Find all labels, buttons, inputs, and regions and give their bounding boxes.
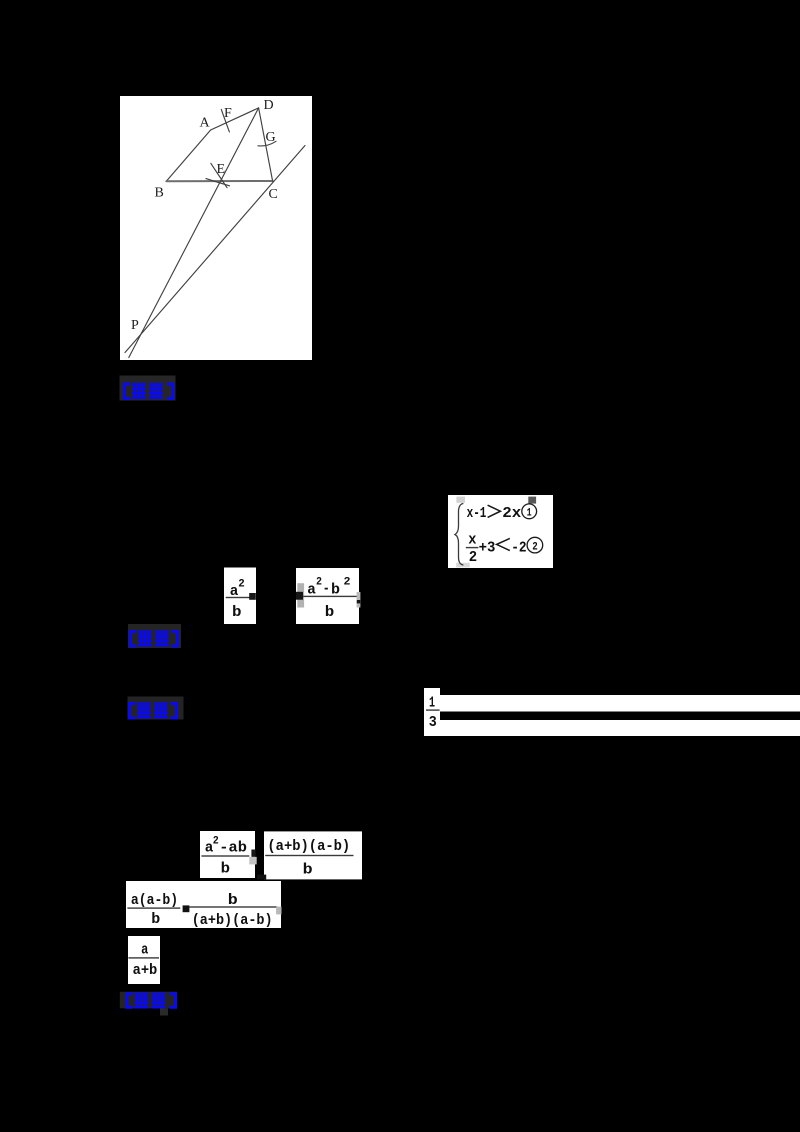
svg-text:a: a bbox=[141, 942, 148, 959]
blue section label 3 bbox=[128, 697, 184, 720]
svg-text:B: B bbox=[155, 186, 164, 201]
blue section label 1 bbox=[120, 376, 176, 401]
svg-text:(a+b)(a-b): (a+b)(a-b) bbox=[267, 838, 350, 855]
svg-text:3: 3 bbox=[429, 714, 437, 731]
arc tick at G bbox=[258, 141, 276, 146]
svg-text:-ab: -ab bbox=[219, 839, 247, 856]
long white bar 1 bbox=[440, 695, 800, 712]
fraction bar bbox=[201, 855, 249, 856]
geometry figure white panel bbox=[120, 96, 312, 360]
wide greater-than sign bbox=[488, 505, 501, 517]
fraction bar 2 bbox=[189, 906, 277, 907]
svg-text:2: 2 bbox=[344, 577, 351, 589]
fraction bar 1 bbox=[127, 907, 180, 908]
svg-text:E: E bbox=[217, 162, 226, 177]
left black handle bbox=[296, 592, 303, 600]
left gray handle bbox=[297, 583, 304, 607]
fraction box (a^2-b^2)/b bbox=[296, 568, 359, 624]
fraction box (a^2-ab)/b bbox=[200, 831, 255, 878]
fraction bar bbox=[226, 597, 251, 598]
right gray handle bbox=[276, 907, 281, 915]
wire segment AB bbox=[166, 130, 210, 181]
blue section label 4 bbox=[120, 992, 177, 1016]
fraction bar 1/3 bbox=[426, 709, 440, 710]
svg-text:x: x bbox=[468, 532, 476, 549]
dark handle bbox=[251, 850, 255, 857]
inequality line 2: x/2+3<-2 (2) bbox=[468, 532, 526, 566]
svg-text:-: - bbox=[323, 581, 330, 598]
svg-text:F: F bbox=[224, 106, 232, 121]
long white bar 2 bbox=[440, 720, 800, 736]
svg-text:+3: +3 bbox=[479, 539, 496, 556]
fraction box a/(a+b) bbox=[128, 936, 160, 984]
left curly brace bbox=[455, 504, 463, 566]
fraction bar bbox=[303, 596, 358, 597]
svg-text:2x: 2x bbox=[502, 505, 521, 522]
circled 2 bbox=[527, 537, 543, 553]
svg-text:1: 1 bbox=[527, 508, 532, 520]
fraction box (a+b)(a-b)/b bbox=[264, 831, 362, 879]
fraction box a^2/b bbox=[224, 568, 256, 625]
svg-text:b: b bbox=[151, 911, 160, 928]
svg-text:b: b bbox=[303, 861, 313, 878]
circled 1 bbox=[522, 504, 537, 519]
black corner handle bbox=[257, 875, 266, 880]
fraction 1/3 white box bbox=[424, 688, 440, 736]
right gray handle bbox=[357, 592, 361, 608]
svg-text:a(a-b): a(a-b) bbox=[131, 892, 178, 909]
svg-text:D: D bbox=[264, 98, 274, 113]
dark tail below bbox=[160, 1008, 168, 1015]
dark gray handle bbox=[528, 497, 536, 504]
wide less-than sign bbox=[497, 538, 510, 550]
blue section label 2 bbox=[128, 624, 181, 648]
light gray handle bbox=[456, 497, 465, 503]
figure labels bbox=[131, 98, 278, 333]
svg-text:b: b bbox=[221, 861, 230, 878]
line through C and P extended bbox=[125, 146, 305, 353]
svg-text:2: 2 bbox=[532, 542, 538, 554]
svg-text:(a+b)(a-b): (a+b)(a-b) bbox=[192, 912, 273, 929]
svg-text:1: 1 bbox=[429, 694, 435, 711]
inequality system white box bbox=[448, 495, 553, 568]
svg-text:G: G bbox=[266, 130, 276, 145]
fraction bar bbox=[265, 855, 353, 856]
bottom light gray handle bbox=[456, 563, 470, 568]
svg-text:2: 2 bbox=[316, 577, 322, 589]
svg-text:x-1: x-1 bbox=[467, 505, 487, 522]
svg-text:A: A bbox=[200, 116, 211, 131]
svg-text:2: 2 bbox=[213, 835, 219, 847]
arc at E upper-left to lower-right bbox=[211, 163, 227, 187]
svg-text:P: P bbox=[131, 318, 139, 333]
arc at E shallow through BC bbox=[206, 179, 230, 186]
wire segment DC bbox=[259, 108, 273, 181]
wire segment BC bbox=[166, 180, 272, 182]
wide solution box a(a-b)/b * b/((a+b)(a-b)) bbox=[126, 881, 281, 928]
multiply dot bbox=[183, 905, 190, 912]
dark drag handle bbox=[249, 593, 256, 600]
svg-text:b: b bbox=[325, 604, 335, 621]
arc tick at F bbox=[221, 109, 229, 131]
svg-text:C: C bbox=[269, 187, 278, 202]
line D through E to P extended bbox=[129, 108, 259, 358]
fraction bar bbox=[128, 957, 159, 958]
wire segment AD bbox=[211, 108, 259, 130]
inequality line 1: x-1>2x (1) bbox=[467, 505, 522, 522]
svg-text:2: 2 bbox=[238, 578, 245, 590]
fraction bar x/2 bbox=[466, 547, 479, 548]
svg-text:a+b: a+b bbox=[133, 962, 158, 979]
svg-text:-2: -2 bbox=[511, 540, 526, 557]
svg-text:2: 2 bbox=[469, 549, 477, 566]
svg-text:b: b bbox=[232, 604, 242, 621]
